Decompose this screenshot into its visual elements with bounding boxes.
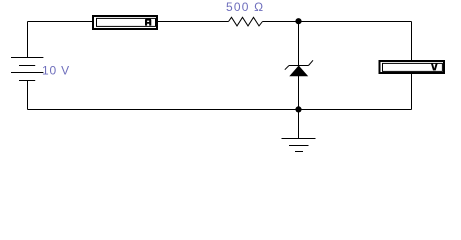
svg-text:500 Ω: 500 Ω (226, 0, 264, 14)
svg-text:10 V: 10 V (42, 64, 70, 78)
